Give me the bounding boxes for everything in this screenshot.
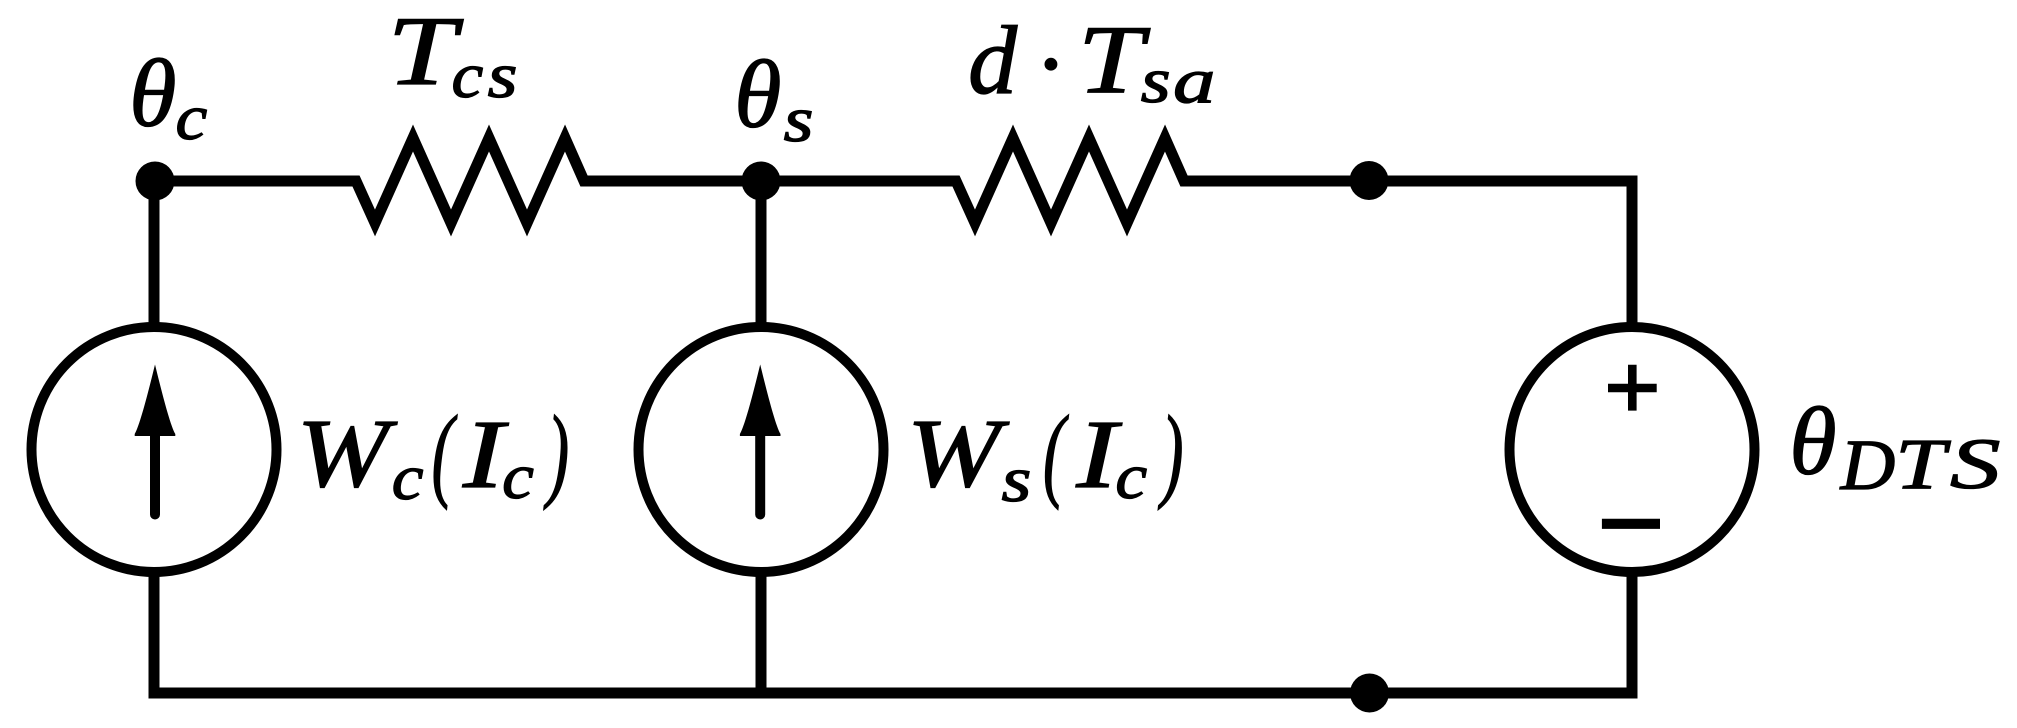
svg-text:s: s	[488, 40, 518, 111]
svg-text:): )	[543, 395, 569, 512]
svg-text:c: c	[176, 81, 208, 153]
svg-text:W: W	[907, 399, 1009, 508]
svg-text:D: D	[1840, 425, 1896, 505]
svg-text:s: s	[784, 84, 814, 155]
svg-text:T: T	[1078, 6, 1151, 114]
svg-text:s: s	[1141, 45, 1171, 116]
svg-text:(: (	[432, 395, 458, 512]
svg-text:c: c	[392, 441, 424, 513]
svg-text:a: a	[1173, 46, 1215, 118]
svg-text:θ: θ	[1789, 388, 1836, 495]
svg-text:c: c	[1115, 440, 1147, 512]
svg-text:s: s	[1001, 444, 1031, 515]
svg-text:): )	[1157, 395, 1183, 512]
svg-text:d: d	[968, 7, 1018, 115]
svg-text:(: (	[1043, 395, 1069, 512]
svg-text:T: T	[1895, 424, 1951, 504]
svg-text:·: ·	[1037, 11, 1062, 119]
svg-text:c: c	[502, 440, 534, 512]
svg-text:S: S	[1950, 424, 2000, 504]
svg-text:c: c	[452, 39, 484, 111]
svg-text:θ: θ	[734, 41, 781, 148]
svg-text:θ: θ	[129, 40, 176, 147]
svg-text:W: W	[297, 399, 398, 508]
